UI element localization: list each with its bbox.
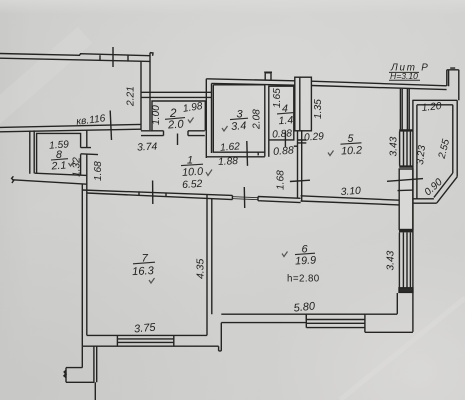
svg-text:1.68: 1.68 xyxy=(276,170,287,190)
notch above top wall xyxy=(264,72,272,80)
top-right step xyxy=(447,68,459,100)
room 8 left wall double xyxy=(30,130,34,173)
tick 1.62/1.88 xyxy=(246,141,249,166)
balcony chamfer double xyxy=(434,173,457,203)
room 4 inner box xyxy=(269,86,294,140)
svg-text:Н=3.10: Н=3.10 xyxy=(390,71,418,81)
svg-text:1.88: 1.88 xyxy=(218,156,239,168)
room 2 bottom wall double with door gap xyxy=(141,131,205,136)
svg-text:6.52: 6.52 xyxy=(182,179,203,191)
svg-text:10.0: 10.0 xyxy=(182,166,204,179)
check room3 xyxy=(222,126,228,131)
room6 right inner wall xyxy=(396,293,398,314)
room5 bottom wall double xyxy=(301,196,399,205)
room6 window xyxy=(306,314,365,332)
svg-text:2.21: 2.21 xyxy=(126,86,137,107)
check room7 xyxy=(149,278,155,283)
room7 bottom outer xyxy=(82,345,218,347)
double line right of step xyxy=(94,346,97,400)
long right outer wall x=413 xyxy=(412,100,414,332)
svg-text:1.35: 1.35 xyxy=(313,99,324,119)
room7/room6 divider wall double xyxy=(207,194,212,335)
svg-text:2.1: 2.1 xyxy=(50,159,67,172)
room 4 bottom door tick xyxy=(284,132,286,148)
corridor top wall (double) xyxy=(141,92,212,97)
svg-text:3.43: 3.43 xyxy=(389,136,400,156)
room 3 inner box xyxy=(213,85,264,157)
bottom-left step outline xyxy=(66,346,94,382)
room 8 inner box xyxy=(37,133,81,174)
balcony left inner wall xyxy=(416,105,418,199)
room3 bottom outer line xyxy=(206,156,264,158)
balcony right wall double xyxy=(453,100,457,177)
svg-text:16.3: 16.3 xyxy=(132,265,155,278)
pier bottom band xyxy=(399,230,413,233)
room4 outer bottom stub to corridor xyxy=(294,145,298,147)
step room7 to room6 xyxy=(219,323,222,351)
wall kv.116 (double) xyxy=(0,124,141,131)
room 7 / room 8 shared left wall xyxy=(82,130,87,347)
room 8 door jambs xyxy=(81,148,98,155)
lintel above room5 door xyxy=(298,140,307,143)
dimension tick on strip xyxy=(112,47,114,67)
room7 bottom wall inner xyxy=(87,334,207,336)
notch squiggle xyxy=(64,371,66,378)
0.29 stub + corridor/room5 wall double xyxy=(298,130,302,201)
sill block room6 window xyxy=(399,288,413,293)
svg-text:1.32: 1.32 xyxy=(72,157,83,177)
svg-text:2.08: 2.08 xyxy=(252,109,263,130)
svg-text:3.43: 3.43 xyxy=(386,250,397,270)
room7/6 top wall (double, sloped) with door gaps xyxy=(82,190,300,203)
svg-text:3.74: 3.74 xyxy=(137,142,158,154)
check room5 xyxy=(328,151,334,156)
check room1 xyxy=(206,170,212,176)
wall joint at x=128 xyxy=(127,55,129,61)
svg-text:1.68: 1.68 xyxy=(93,161,104,181)
pilaster outer xyxy=(295,77,312,131)
window room6 (vertical lines) xyxy=(399,233,410,288)
vestibule wall below room4 xyxy=(268,140,270,157)
room 8 bottom wall double xyxy=(13,173,87,184)
room7 window lines xyxy=(117,335,173,346)
top wall right segment (double) xyxy=(311,81,446,89)
check room6 xyxy=(282,252,288,257)
svg-text:2.0: 2.0 xyxy=(167,118,185,131)
balcony bottom wall double xyxy=(413,199,437,203)
check room8 xyxy=(69,161,75,166)
tick room6 top door xyxy=(243,187,245,208)
wall 2.21: vertical double xyxy=(141,61,150,130)
svg-text:3.10: 3.10 xyxy=(340,186,361,198)
wall: strip end cap xyxy=(150,53,153,62)
wall joint at x=100 xyxy=(99,55,101,61)
pilaster inner left line xyxy=(299,77,301,131)
check room2 xyxy=(188,118,194,123)
svg-text:1.00: 1.00 xyxy=(151,105,162,125)
pier between windows xyxy=(399,169,413,230)
wall: top-left strip bottom line xyxy=(0,58,150,61)
svg-text:3.4: 3.4 xyxy=(231,120,247,133)
wall: top-left strip top line xyxy=(0,54,150,56)
window room5 (vertical lines) xyxy=(400,132,411,166)
tick on pier at 3.43 start xyxy=(398,189,414,192)
svg-text:0.29: 0.29 xyxy=(304,131,325,143)
svg-text:1.4: 1.4 xyxy=(278,114,294,127)
balcony top wall double xyxy=(412,100,457,105)
svg-text:1.20: 1.20 xyxy=(421,101,442,114)
svg-text:1.62: 1.62 xyxy=(220,141,241,153)
thin door lines in room6 doorway xyxy=(232,197,258,200)
right column: room5 right wall double xyxy=(400,89,409,130)
room7 door jambs xyxy=(139,191,166,196)
tick room7 top door xyxy=(152,181,154,205)
room6 bottom wall double xyxy=(221,314,397,322)
room6 bottom-right outer step xyxy=(365,331,413,333)
svg-text:19.9: 19.9 xyxy=(295,254,317,267)
hook at left end xyxy=(12,176,14,183)
svg-text:4.35: 4.35 xyxy=(196,259,207,279)
tick crossing pier xyxy=(387,179,423,182)
svg-text:0.88: 0.88 xyxy=(272,128,293,140)
tick below room2 wall xyxy=(177,134,179,146)
tick crossing corridor wall xyxy=(290,180,310,181)
tick on kv.116 wall xyxy=(110,111,111,141)
room3 block left wall double xyxy=(206,79,211,158)
svg-text:3.23: 3.23 xyxy=(415,144,428,165)
window room5 caps xyxy=(399,130,413,166)
jamb on room3 bottom xyxy=(257,152,259,155)
svg-text:h=2.80: h=2.80 xyxy=(287,274,320,285)
top wall left segment (double) xyxy=(206,79,295,85)
svg-text:5.80: 5.80 xyxy=(293,300,316,314)
room 2 box xyxy=(152,101,205,131)
svg-text:3.75: 3.75 xyxy=(134,322,157,336)
svg-text:10.2: 10.2 xyxy=(341,144,363,157)
svg-text:0.88: 0.88 xyxy=(273,145,295,158)
tick at 5.80 window jamb xyxy=(305,314,307,320)
